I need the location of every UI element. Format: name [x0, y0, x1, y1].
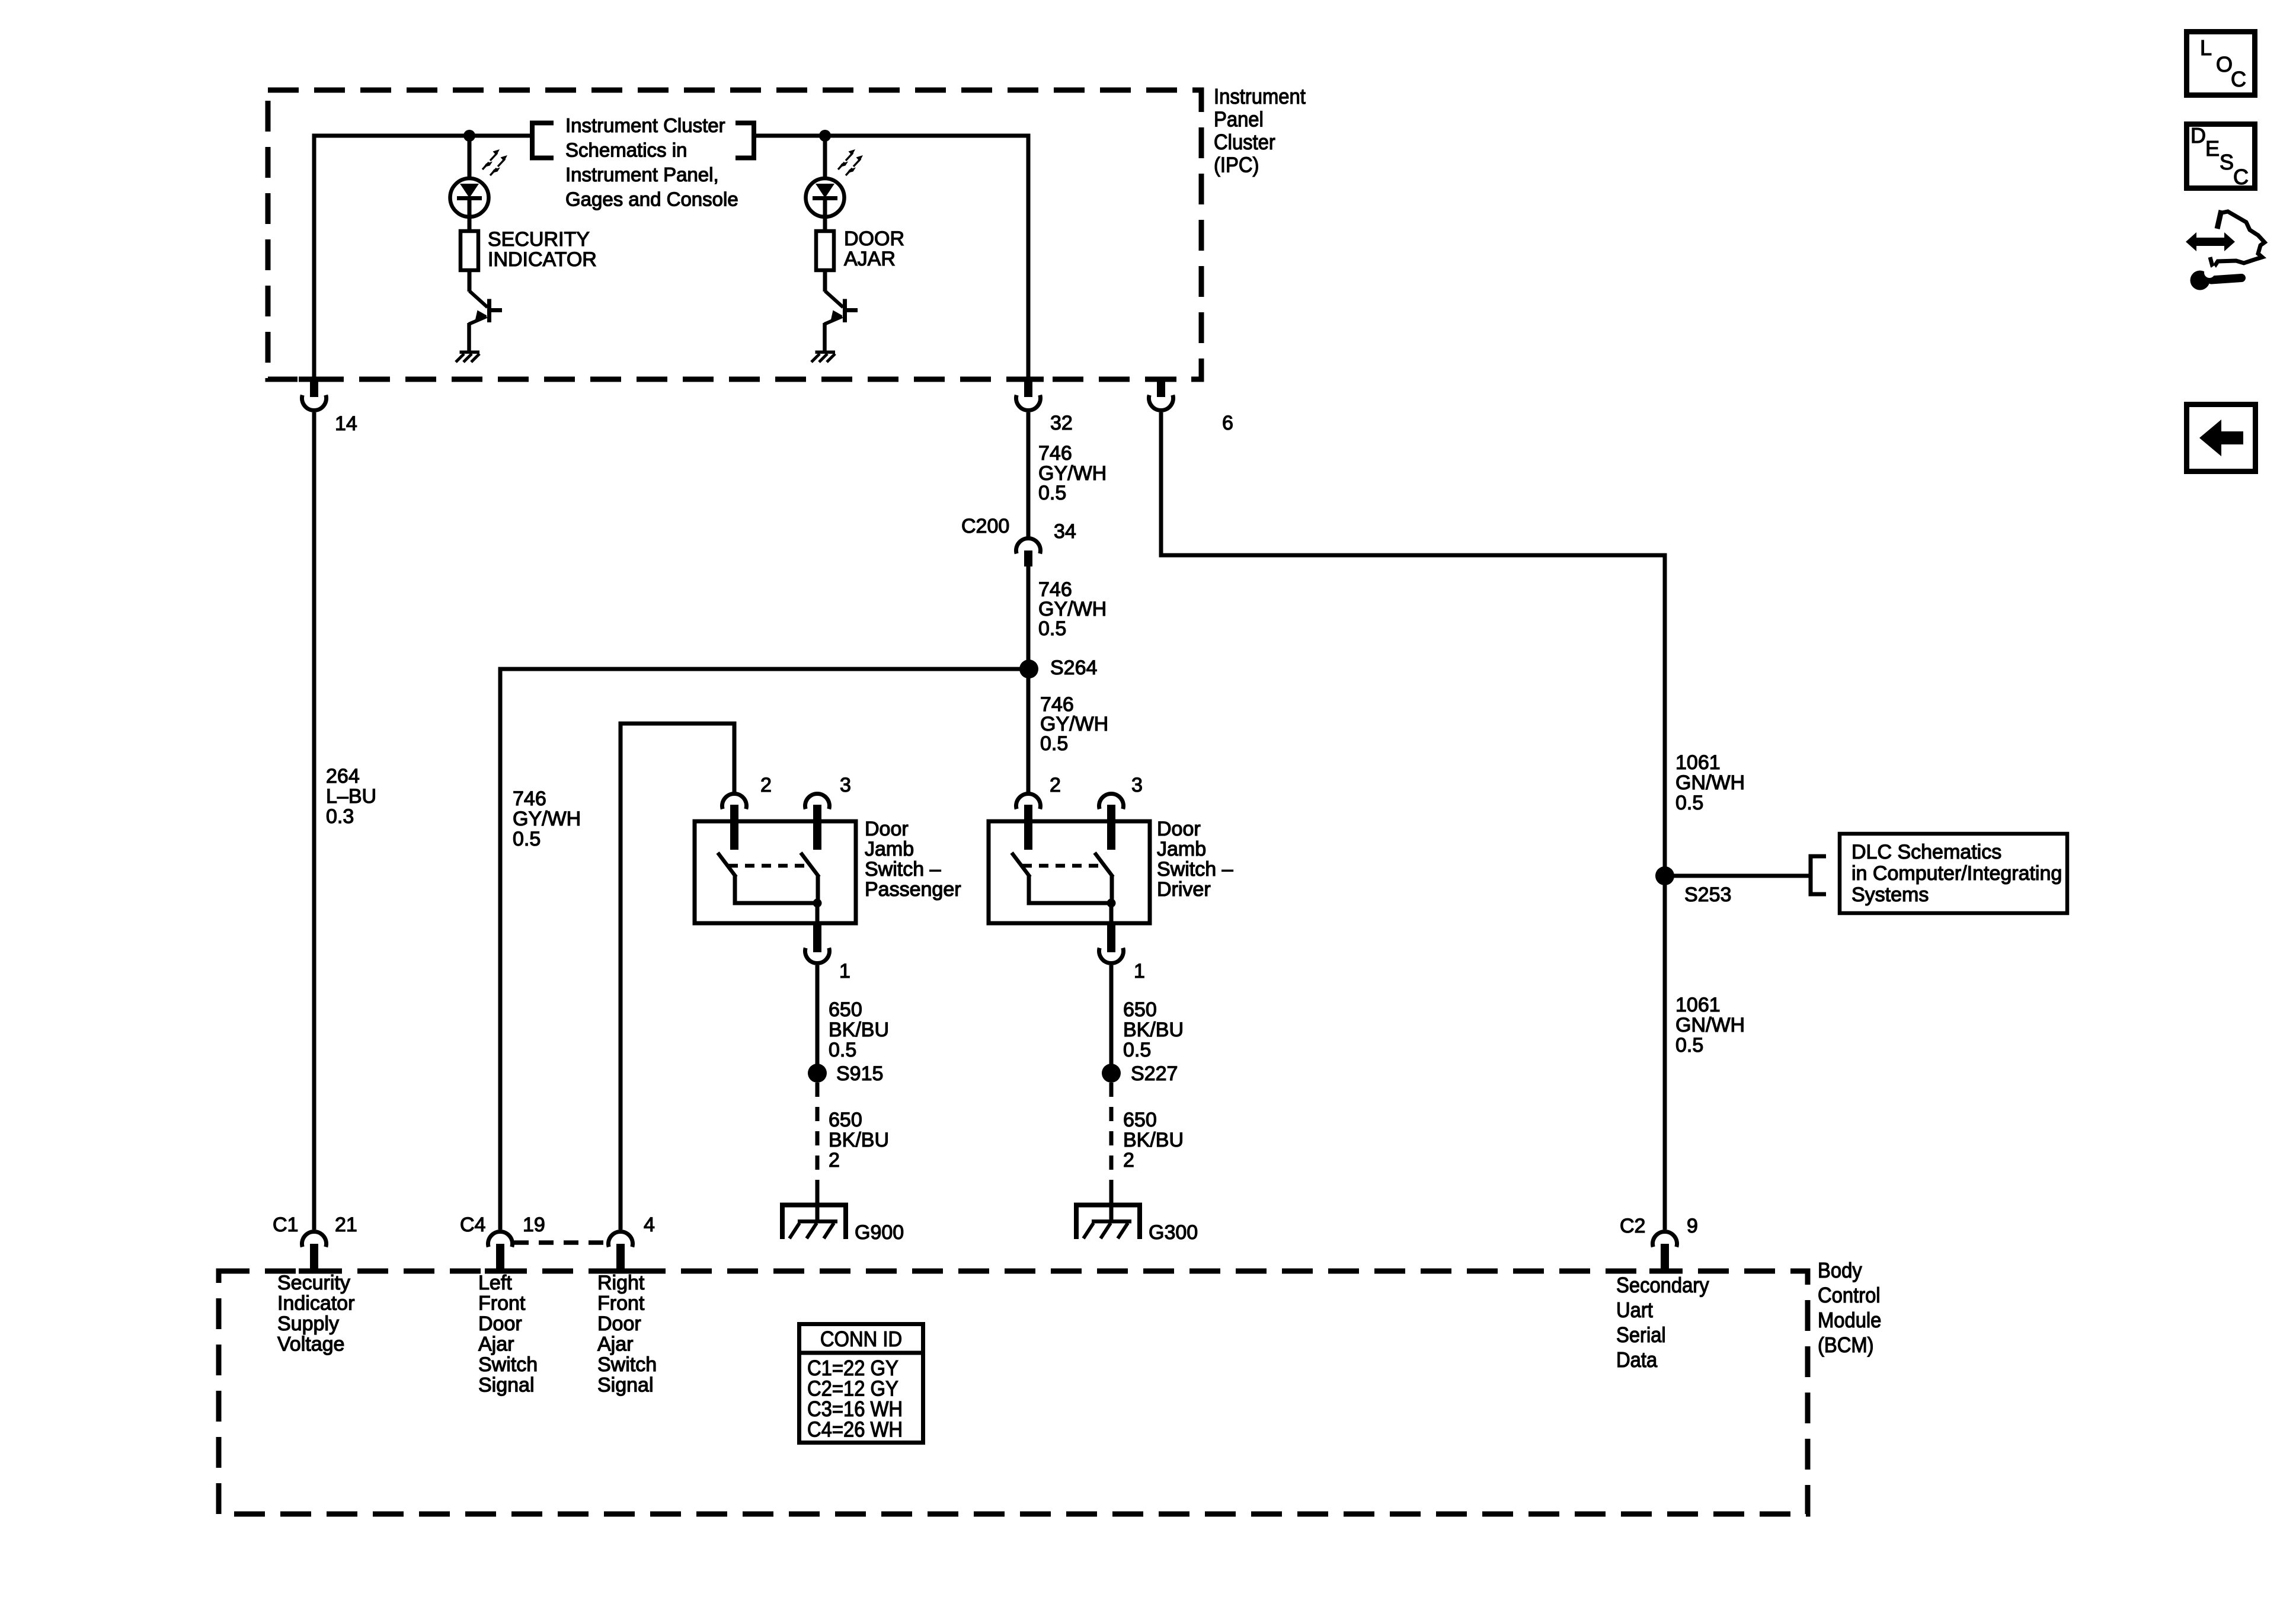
- wire bus to door ajar lamp: [823, 136, 827, 180]
- lamp SECURITY INDICATOR LED: [450, 149, 508, 217]
- connector BCM C1 pin 21: [299, 1231, 330, 1273]
- wire to G900: [816, 1189, 820, 1221]
- svg-text:S: S: [2220, 150, 2234, 174]
- icon DESC button: [2187, 123, 2255, 189]
- svg-text:2: 2: [1050, 774, 1061, 796]
- connector passenger switch pin 1: [805, 923, 830, 964]
- svg-text:O: O: [2216, 52, 2233, 76]
- wire S253 to DLC callout: [1665, 874, 1811, 878]
- wire lamp to resistor: [468, 200, 472, 232]
- svg-text:S915: S915: [836, 1062, 883, 1085]
- connector driver switch pin 1: [1099, 923, 1124, 964]
- wire 264 L-BU: [312, 412, 316, 1230]
- ground G900: [782, 1205, 846, 1240]
- lamp DOOR AJAR LED: [806, 149, 864, 217]
- connector BCM C4 pin 19: [485, 1231, 516, 1273]
- splice S227: [1102, 1064, 1121, 1083]
- wire 650 BK/BU passenger: [816, 965, 820, 1073]
- wire resistor to transistor: [468, 269, 472, 292]
- connector IPC pin 14: [299, 377, 330, 411]
- svg-text:S264: S264: [1050, 657, 1097, 679]
- icon LOC button: [2187, 32, 2255, 95]
- wire dashed link C4 pins 19-4: [514, 1240, 607, 1245]
- connector passenger switch pin 3: [805, 793, 830, 850]
- svg-text:9: 9: [1687, 1215, 1698, 1237]
- svg-text:C1: C1: [273, 1214, 298, 1236]
- connector BCM C2 pin 9: [1649, 1231, 1680, 1273]
- svg-text:3: 3: [840, 774, 851, 796]
- connector passenger switch pin 2: [722, 793, 747, 850]
- splice S253: [1655, 866, 1674, 885]
- svg-text:L: L: [2200, 36, 2212, 60]
- svg-text:C4: C4: [460, 1214, 485, 1236]
- connector driver switch pin 3: [1099, 793, 1124, 850]
- svg-text:C: C: [2231, 67, 2246, 91]
- svg-text:1: 1: [1134, 960, 1145, 982]
- Body Control Module dashed box: [219, 1271, 1808, 1514]
- wire 650 BK/BU driver: [1109, 965, 1114, 1073]
- svg-text:E: E: [2205, 136, 2220, 161]
- svg-text:S253: S253: [1684, 884, 1731, 906]
- box DLC Schematics: [1840, 834, 2067, 913]
- wire transistor emitter to ground: [467, 323, 471, 351]
- resistor door ajar: [816, 231, 834, 270]
- resistor security indicator: [461, 231, 478, 270]
- wire lamp to resistor door ajar: [823, 200, 827, 232]
- wire 746 from C200 to S264 to driver switch: [1027, 566, 1031, 793]
- node bus tap security lamp: [463, 130, 475, 142]
- node bus tap door ajar lamp: [819, 130, 831, 142]
- wire 1061 GN/WH: [1161, 412, 1665, 1230]
- wire bus right segment + drop to connector 32: [754, 136, 1028, 380]
- svg-text:21: 21: [335, 1214, 357, 1236]
- wire transistor emitter to ground door ajar: [823, 323, 827, 351]
- transistor Q security driver: [469, 291, 502, 324]
- connector C200 pin 34: [1016, 538, 1041, 566]
- connector IPC pin 6: [1146, 377, 1176, 411]
- svg-text:14: 14: [335, 412, 357, 435]
- icon back arrow button: [2187, 405, 2256, 472]
- svg-text:32: 32: [1050, 412, 1073, 434]
- wire right front door signal Z-run: [621, 724, 734, 1230]
- svg-text:SecurityIndicatorSupplyVoltage: SecurityIndicatorSupplyVoltage: [277, 1272, 354, 1356]
- Instrument Panel Cluster dashed box: [268, 90, 1201, 379]
- svg-text:3: 3: [1131, 774, 1143, 796]
- svg-text:19: 19: [523, 1214, 545, 1236]
- svg-text:C1=22 GYC2=12 GYC3=16 WHC4=26: C1=22 GYC2=12 GYC3=16 WHC4=26 WH: [807, 1356, 903, 1442]
- wire dashed splice to ground passenger: [816, 1083, 820, 1189]
- splice S264: [1019, 660, 1038, 678]
- table CONN ID: [797, 1324, 925, 1443]
- ground G300: [1076, 1205, 1140, 1240]
- wire resistor to transistor door ajar: [823, 269, 827, 292]
- svg-text:S227: S227: [1131, 1062, 1178, 1085]
- svg-text:DOORAJAR: DOORAJAR: [844, 228, 904, 270]
- svg-text:2: 2: [760, 774, 772, 796]
- wire to G300: [1109, 1189, 1114, 1221]
- wire 746 branch to left front door signal: [500, 669, 1028, 1230]
- ground IPC security: [456, 351, 479, 363]
- svg-text:C2: C2: [1620, 1215, 1645, 1237]
- svg-text:G300: G300: [1149, 1221, 1198, 1244]
- svg-text:C: C: [2233, 165, 2249, 189]
- wire dashed splice to ground driver: [1109, 1083, 1114, 1189]
- callout brackets: [532, 123, 754, 158]
- bracket DLC callout: [1811, 856, 1826, 894]
- svg-text:4: 4: [644, 1214, 655, 1236]
- svg-text:C200: C200: [961, 515, 1009, 537]
- connector IPC pin 32: [1013, 377, 1044, 411]
- svg-text:D: D: [2191, 123, 2206, 148]
- splice S915: [808, 1064, 827, 1083]
- connector driver switch pin 2: [1016, 793, 1041, 850]
- wire bus to security lamp: [468, 136, 472, 180]
- svg-text:SECURITYINDICATOR: SECURITYINDICATOR: [488, 228, 597, 271]
- svg-text:1: 1: [839, 960, 850, 982]
- svg-text:6: 6: [1222, 412, 1233, 434]
- svg-text:G900: G900: [855, 1221, 904, 1244]
- connector BCM C4 pin 4: [605, 1231, 636, 1273]
- ground IPC door ajar: [811, 351, 835, 363]
- wire 746 from pin32 to C200: [1027, 412, 1031, 537]
- transistor Q door ajar driver: [824, 291, 858, 324]
- switch Door Jamb Switch - Passenger: [695, 821, 856, 923]
- svg-text:CONN ID: CONN ID: [820, 1327, 902, 1351]
- svg-text:34: 34: [1054, 520, 1076, 543]
- switch Door Jamb Switch - Driver: [989, 821, 1150, 923]
- icon vehicle data arrows with wrench: [2186, 210, 2265, 290]
- wire bus left segment + drop to connector 14: [314, 136, 532, 380]
